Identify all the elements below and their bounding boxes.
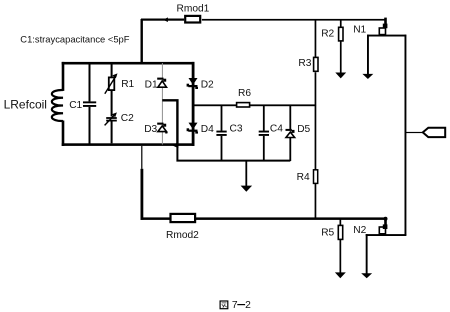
diode D1 [157,78,166,88]
svg-text:7: 7 [232,300,238,311]
diode D3 [157,123,167,134]
caption figure 7-2 [220,300,251,311]
svg-text:LRefcoil: LRefcoil [4,98,47,112]
ground below R2 [335,73,346,79]
N2 source wire to ground [366,234,368,274]
svg-text:Rmod2: Rmod2 [166,230,199,241]
resistor R5 [338,225,342,239]
N1 source wire to ground [367,35,369,75]
right rail [405,35,407,236]
resistor R3 column upper [315,20,317,59]
svg-text:C1: C1 [69,100,82,111]
arrow on top wire [163,17,168,22]
N1 bottom bar wire [367,35,406,37]
wire from D1/D3 midpoint [162,100,177,145]
svg-text:D2: D2 [201,79,214,90]
svg-text:C4: C4 [270,124,283,135]
capacitor C4 [263,105,265,131]
tank loop box left edge upper [62,62,65,91]
ground below R5 [335,272,346,278]
svg-text:D5: D5 [297,124,310,135]
resistor Rmod2 [171,214,196,222]
resistor R5 column [340,219,342,227]
current direction arrow on bottom edge [172,142,179,148]
resistor R4 [314,170,318,184]
svg-text:N1: N1 [353,25,366,36]
capacitor C3 [221,105,223,131]
wire R4 to lower rail [315,184,317,219]
tank loop box left edge lower [62,121,65,147]
wire R2 to ground [340,42,342,74]
wire drop below tank box to bottom rail [177,146,290,161]
wire R3 to rail [315,72,317,106]
ground of filter rail [245,161,247,186]
wire rail to R4 [315,106,317,170]
svg-text:R4: R4 [297,172,310,183]
transistor N1 [379,18,387,35]
ground below N1 [362,74,373,79]
resistor R2 [339,27,343,41]
output stub wire [405,132,423,133]
diode D4 [187,123,198,134]
svg-text:R2: R2 [321,28,334,39]
svg-text:R3: R3 [298,58,311,69]
svg-text:C1:straycapacitance <5pF: C1:straycapacitance <5pF [20,34,129,45]
svg-text:D3: D3 [144,124,157,135]
capacitor C1 plates [83,101,96,103]
wire below C2 [111,122,113,144]
svg-text:D1: D1 [145,79,158,90]
capacitor C1 wire upper [89,63,91,101]
svg-text:R5: R5 [321,228,334,239]
tank loop box top edge [62,62,195,65]
capacitor C2 (adjustable) [106,117,117,119]
svg-text:R6: R6 [238,88,251,99]
wire between R1 and C2 [111,91,113,117]
resistor R6 rail [194,104,316,106]
svg-text:D4: D4 [201,124,214,135]
wire left drop thick [141,169,144,220]
svg-text:N2: N2 [353,225,366,236]
capacitor C1 wire lower [89,107,91,144]
output terminal tag [423,128,445,137]
svg-text:2: 2 [245,300,251,311]
svg-text:R1: R1 [121,79,134,90]
wire top feed vertical [141,19,143,63]
wire left drop thin [141,146,142,169]
diode D5 [289,105,291,130]
wire R5 to ground [340,240,342,273]
bridge left column wire [162,63,163,145]
resistor R2 column [340,20,342,28]
ground below N2 [361,273,372,278]
inductor LRefcoil [52,90,63,121]
wire top to Rmod1 [141,19,184,21]
resistor R1 wire upper [111,63,113,77]
bridge right column (tank box right edge) [192,62,195,146]
wire Rmod1 to N1 drain [202,19,386,21]
svg-text:Rmod1: Rmod1 [177,4,210,15]
transistor N2 [379,217,387,234]
svg-text:C2: C2 [121,113,134,124]
resistor R6 [237,103,250,107]
svg-text:C3: C3 [230,123,243,134]
diode D2 [187,78,198,89]
resistor R3 [314,57,318,71]
resistor R1 (adjustable) [109,77,115,90]
tank loop box bottom edge [62,143,195,146]
wire lower long run [141,217,387,220]
resistor Rmod1 [185,16,200,23]
N2 bottom bar wire [366,234,407,236]
